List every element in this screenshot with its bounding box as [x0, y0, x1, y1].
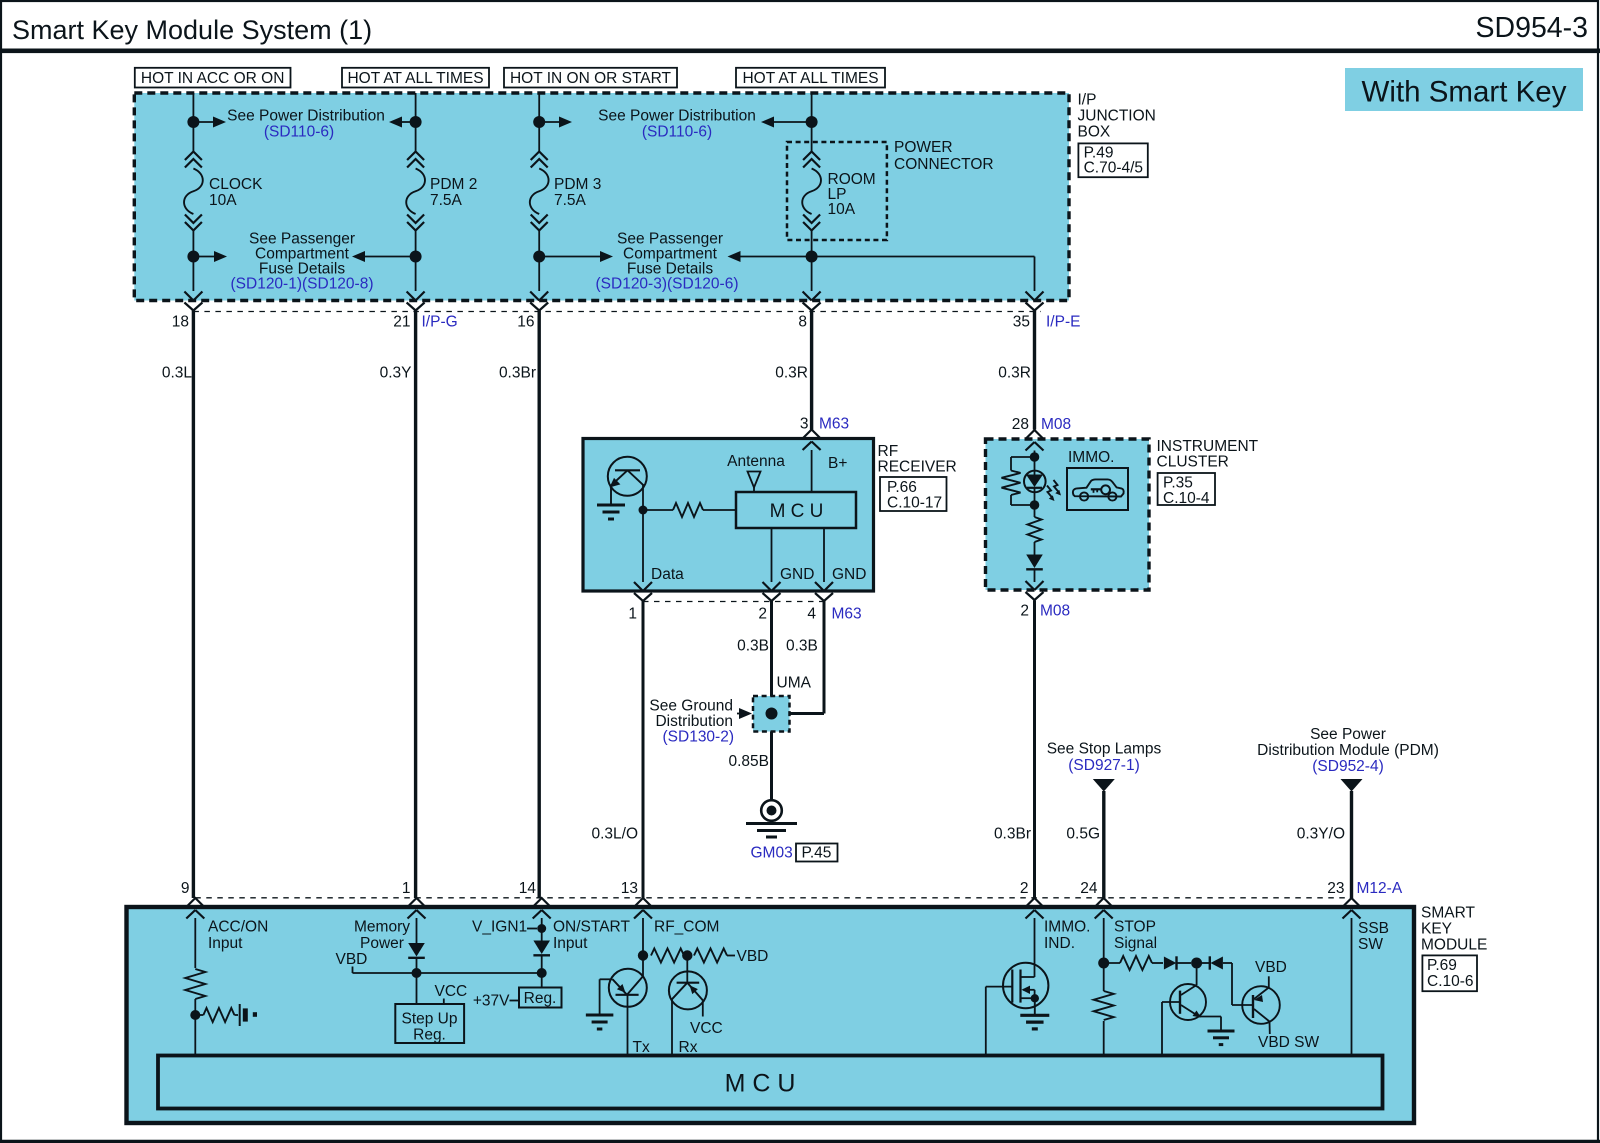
svg-text:STOP: STOP	[1114, 919, 1156, 936]
svg-text:GND: GND	[832, 566, 866, 583]
svg-text:See Power Distribution: See Power Distribution	[598, 108, 756, 125]
svg-text:See Power: See Power	[1310, 726, 1386, 743]
svg-text:(SD927-1): (SD927-1)	[1068, 757, 1140, 774]
svg-text:3: 3	[800, 416, 809, 433]
svg-text:I/P-E: I/P-E	[1046, 314, 1080, 331]
svg-text:18: 18	[172, 314, 189, 331]
svg-text:With Smart Key: With Smart Key	[1362, 76, 1567, 109]
svg-text:VCC: VCC	[435, 983, 468, 1000]
svg-text:ON/START: ON/START	[553, 919, 630, 936]
svg-text:+37V: +37V	[473, 993, 510, 1010]
svg-text:P.35: P.35	[1163, 475, 1193, 492]
svg-text:0.3B: 0.3B	[737, 638, 769, 655]
svg-text:GM03: GM03	[751, 845, 793, 862]
svg-text:8: 8	[798, 314, 807, 331]
svg-text:C.70-4/5: C.70-4/5	[1084, 160, 1143, 177]
svg-text:See Stop Lamps: See Stop Lamps	[1047, 741, 1162, 758]
svg-text:Data: Data	[651, 566, 684, 583]
svg-text:21: 21	[393, 314, 410, 331]
svg-text:HOT IN ACC OR ON: HOT IN ACC OR ON	[141, 70, 285, 87]
svg-text:GND: GND	[780, 566, 814, 583]
svg-text:RF_COM: RF_COM	[654, 919, 719, 936]
svg-text:M63: M63	[832, 606, 862, 623]
svg-text:0.3R: 0.3R	[775, 365, 808, 382]
svg-text:M C U: M C U	[770, 501, 824, 522]
svg-text:SMART: SMART	[1421, 905, 1476, 922]
svg-text:9: 9	[181, 880, 190, 897]
svg-text:Power: Power	[360, 935, 404, 952]
svg-text:See Ground: See Ground	[649, 698, 733, 715]
svg-text:VCC: VCC	[690, 1020, 723, 1037]
svg-text:See Power Distribution: See Power Distribution	[227, 108, 385, 125]
svg-text:0.85B: 0.85B	[728, 753, 769, 770]
svg-text:B+: B+	[828, 455, 847, 472]
svg-text:Antenna: Antenna	[727, 453, 785, 470]
svg-text:SW: SW	[1358, 936, 1383, 953]
svg-text:MODULE: MODULE	[1421, 937, 1487, 954]
svg-text:7.5A: 7.5A	[554, 192, 587, 209]
svg-text:PDM 3: PDM 3	[554, 176, 601, 193]
svg-text:VBD: VBD	[336, 951, 368, 968]
svg-text:Memory: Memory	[354, 919, 410, 936]
svg-text:M08: M08	[1040, 603, 1070, 620]
svg-text:0.3Y/O: 0.3Y/O	[1297, 826, 1345, 843]
svg-text:IMMO.: IMMO.	[1068, 449, 1115, 466]
svg-text:VBD: VBD	[737, 948, 769, 965]
svg-text:P.66: P.66	[887, 479, 917, 496]
svg-text:(SD110-6): (SD110-6)	[642, 124, 712, 141]
svg-text:0.3R: 0.3R	[998, 365, 1031, 382]
svg-text:SSB: SSB	[1358, 920, 1389, 937]
svg-text:(SD120-3)(SD120-6): (SD120-3)(SD120-6)	[596, 276, 739, 293]
svg-text:1: 1	[628, 606, 637, 623]
svg-text:Distribution Module (PDM): Distribution Module (PDM)	[1257, 742, 1439, 759]
svg-text:RECEIVER: RECEIVER	[878, 459, 957, 476]
svg-text:VBD: VBD	[1255, 959, 1287, 976]
svg-text:CONNECTOR: CONNECTOR	[894, 156, 994, 173]
svg-text:13: 13	[621, 880, 638, 897]
svg-text:BOX: BOX	[1078, 124, 1111, 141]
svg-text:Input: Input	[553, 935, 588, 952]
svg-text:Distribution: Distribution	[655, 713, 733, 730]
svg-text:10A: 10A	[828, 201, 856, 218]
svg-text:IND.: IND.	[1044, 935, 1075, 952]
svg-text:23: 23	[1327, 880, 1344, 897]
svg-text:C.10-17: C.10-17	[887, 495, 942, 512]
svg-text:(SD130-2): (SD130-2)	[663, 729, 735, 746]
svg-text:INSTRUMENT: INSTRUMENT	[1157, 438, 1259, 455]
svg-text:VBD SW: VBD SW	[1258, 1034, 1320, 1051]
svg-text:I/P: I/P	[1078, 92, 1097, 109]
svg-text:1: 1	[402, 880, 411, 897]
svg-text:HOT IN ON OR START: HOT IN ON OR START	[510, 70, 672, 87]
svg-text:24: 24	[1080, 880, 1098, 897]
svg-text:0.3Br: 0.3Br	[499, 365, 536, 382]
svg-text:Step Up: Step Up	[401, 1011, 457, 1028]
svg-text:28: 28	[1012, 416, 1029, 433]
svg-text:0.3B: 0.3B	[786, 638, 818, 655]
svg-text:0.3L: 0.3L	[162, 365, 193, 382]
svg-text:35: 35	[1013, 314, 1030, 331]
svg-text:0.5G: 0.5G	[1066, 826, 1100, 843]
svg-text:IMMO.: IMMO.	[1044, 919, 1091, 936]
svg-text:Signal: Signal	[1114, 935, 1157, 952]
svg-text:I/P-G: I/P-G	[422, 314, 458, 331]
svg-text:RF: RF	[878, 443, 899, 460]
svg-text:HOT AT ALL TIMES: HOT AT ALL TIMES	[347, 70, 483, 87]
svg-text:C.10-6: C.10-6	[1427, 973, 1474, 990]
svg-text:Input: Input	[208, 935, 243, 952]
svg-text:M C U: M C U	[725, 1070, 796, 1098]
svg-text:4: 4	[807, 606, 816, 623]
svg-text:7.5A: 7.5A	[430, 192, 463, 209]
svg-text:V_IGN1: V_IGN1	[472, 919, 527, 936]
svg-text:(SD120-1)(SD120-8): (SD120-1)(SD120-8)	[231, 276, 374, 293]
svg-text:CLUSTER: CLUSTER	[1157, 454, 1229, 471]
svg-text:2: 2	[1020, 603, 1029, 620]
svg-text:M08: M08	[1041, 416, 1071, 433]
svg-text:0.3Y: 0.3Y	[380, 365, 412, 382]
svg-text:Rx: Rx	[679, 1039, 698, 1056]
svg-text:(SD952-4): (SD952-4)	[1312, 758, 1384, 775]
svg-text:2: 2	[758, 606, 767, 623]
svg-text:(SD110-6): (SD110-6)	[264, 124, 334, 141]
svg-text:HOT AT ALL TIMES: HOT AT ALL TIMES	[742, 70, 878, 87]
svg-text:PDM 2: PDM 2	[430, 176, 477, 193]
svg-text:Reg.: Reg.	[413, 1027, 446, 1044]
svg-text:16: 16	[517, 314, 534, 331]
svg-text:P.69: P.69	[1427, 957, 1457, 974]
svg-text:0.3L/O: 0.3L/O	[591, 826, 638, 843]
svg-text:10A: 10A	[209, 192, 237, 209]
svg-text:14: 14	[519, 880, 537, 897]
svg-text:SD954-3: SD954-3	[1476, 12, 1588, 44]
svg-text:JUNCTION: JUNCTION	[1078, 108, 1156, 125]
svg-text:Smart Key Module System (1): Smart Key Module System (1)	[12, 15, 372, 45]
svg-text:ACC/ON: ACC/ON	[208, 919, 268, 936]
svg-text:C.10-4: C.10-4	[1163, 490, 1210, 507]
svg-text:2: 2	[1020, 880, 1029, 897]
svg-text:CLOCK: CLOCK	[209, 176, 263, 193]
svg-text:Reg.: Reg.	[524, 990, 557, 1007]
svg-text:UMA: UMA	[777, 675, 812, 692]
svg-text:M12-A: M12-A	[1357, 880, 1403, 897]
svg-text:Tx: Tx	[633, 1039, 650, 1056]
svg-text:0.3Br: 0.3Br	[994, 826, 1031, 843]
svg-text:M63: M63	[819, 416, 849, 433]
svg-text:KEY: KEY	[1421, 921, 1452, 938]
svg-text:POWER: POWER	[894, 139, 953, 156]
svg-text:P.45: P.45	[802, 845, 832, 862]
